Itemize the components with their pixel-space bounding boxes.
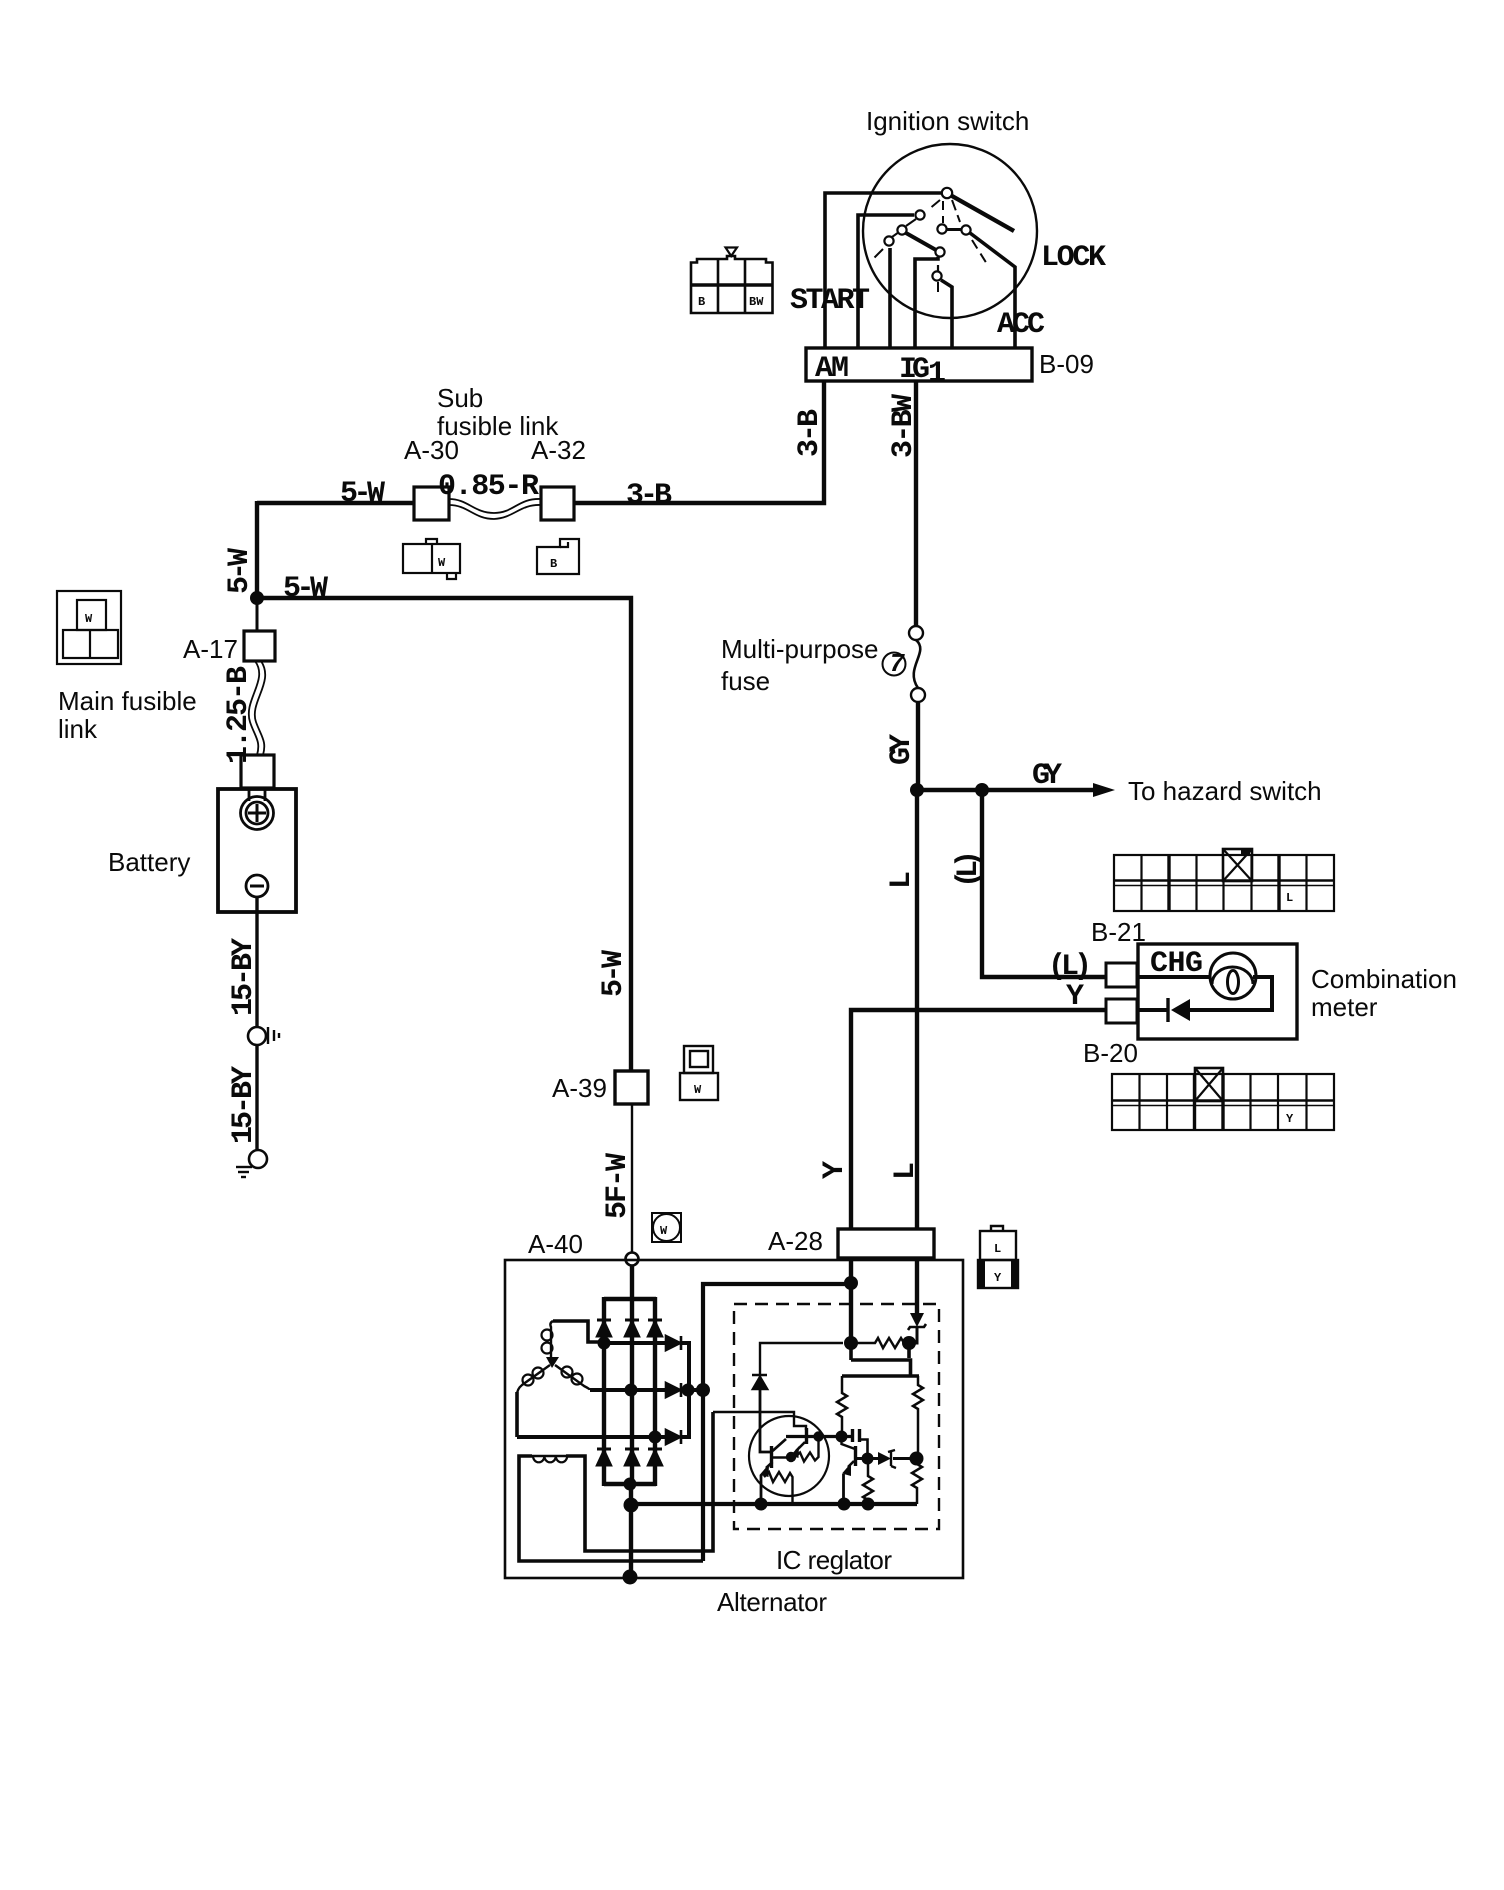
svg-text:1.25-B: 1.25-B [222, 666, 256, 764]
node GY junction 2 [975, 783, 989, 797]
wire switch to B-09 pin2 [858, 215, 914, 348]
node row3 right column [649, 1431, 662, 1444]
wire AM to switch pivot [825, 193, 941, 348]
wire 15-BY upper [255, 897, 258, 1027]
fusible link wavy A-30 to A-32 [449, 499, 541, 513]
svg-text:A-28: A-28 [768, 1226, 823, 1256]
fuse box grid upper [1114, 855, 1334, 911]
transistor T3 [854, 1446, 857, 1466]
stator coil 1 [550, 1321, 553, 1358]
node row2 center column [625, 1384, 638, 1397]
regulator ground rail [631, 1502, 917, 1506]
IC regulator dashed box [734, 1304, 939, 1529]
svg-text:Main fusible: Main fusible [58, 686, 197, 716]
diode bridge lower diodes [597, 1449, 662, 1465]
svg-text:AM: AM [815, 352, 849, 386]
node rail T1 [755, 1498, 768, 1511]
svg-text:15-BY: 15-BY [227, 938, 261, 1016]
svg-text:L: L [994, 1242, 1001, 1256]
field coil left lead [519, 1456, 703, 1561]
wire switch to B-09 pin5 [941, 280, 952, 348]
switch position dashes [871, 200, 987, 292]
node GY junction 1 [910, 783, 924, 797]
switch contact link thin [906, 219, 916, 226]
wire bridge output row 3 [517, 1388, 689, 1437]
capacitor C1 [851, 1429, 854, 1442]
connector icon B/BW (near START) [691, 248, 773, 314]
svg-text:fuse: fuse [721, 666, 770, 696]
ground G1 (mid body ground) [248, 1027, 266, 1045]
svg-text:START: START [790, 284, 870, 318]
fuse cell X upper [1223, 849, 1252, 881]
stator neutral node [546, 1357, 559, 1368]
wire T1 emitter to rail [760, 1475, 763, 1504]
resistor R1 [851, 1338, 910, 1348]
diode row2 output [666, 1383, 681, 1397]
svg-text:L: L [889, 1162, 923, 1180]
transistor T1 [770, 1446, 773, 1468]
connector A-30 [414, 487, 449, 520]
resistor R4 [837, 1376, 847, 1435]
wire bridge output row 1 [604, 1343, 689, 1390]
node C1 bottom [862, 1453, 874, 1465]
stator coil 3 [555, 1365, 590, 1390]
resistor R6 [764, 1472, 793, 1504]
connector icon W square-circle (left of A-28) [652, 1213, 681, 1242]
svg-text:ACC: ACC [997, 308, 1045, 342]
switch contact bridge [906, 233, 936, 250]
wire GY to hazard switch with arrow [917, 788, 1098, 792]
svg-text:meter: meter [1311, 992, 1378, 1022]
field coil L1 [531, 1455, 567, 1457]
node row1 left column [598, 1337, 611, 1350]
svg-text:A-32: A-32 [531, 435, 586, 465]
wire diode to B-20 [1137, 1008, 1168, 1012]
wire bridge output row 2 [590, 1388, 703, 1392]
transistor pair circle [749, 1416, 829, 1496]
connector A-39 [615, 1071, 648, 1104]
wire B+ to ground rail [629, 1484, 633, 1577]
svg-text:3-B: 3-B [793, 409, 827, 457]
wire D2 to T1 base [760, 1388, 771, 1452]
svg-text:GY: GY [1032, 759, 1062, 793]
node rail R8 [862, 1498, 875, 1511]
diode D2 [752, 1375, 767, 1389]
svg-text:5-W: 5-W [283, 572, 328, 606]
wire T2 collector bus [786, 1435, 852, 1438]
diode bridge upper diodes [597, 1320, 662, 1336]
svg-text:W: W [438, 556, 446, 570]
connector icon W (below A-30) [403, 539, 460, 579]
wire D3 to L node [893, 1457, 917, 1460]
wire A-28 Y pin into regulator [849, 1258, 853, 1343]
connector icon W double-square (right of A-39) [680, 1046, 718, 1100]
wire A-28 L pin to zener [915, 1258, 919, 1313]
node row2 output bus [682, 1384, 695, 1397]
lamp CHG indicator [1210, 953, 1256, 999]
svg-text:Y: Y [1286, 1112, 1294, 1126]
wire IG1 from switch [915, 257, 938, 348]
connector B-09 [806, 348, 1032, 381]
wire L main vertical [915, 790, 919, 1229]
svg-text:Battery: Battery [108, 847, 190, 877]
alternator box [505, 1260, 963, 1578]
stator phase B lead [515, 1392, 519, 1437]
node alternator case ground [623, 1570, 638, 1585]
svg-text:Multi-purpose: Multi-purpose [721, 634, 879, 664]
wire regulator sense line [713, 1412, 806, 1430]
connector A-40 (circle on alternator box) [626, 1253, 639, 1266]
wire 5-W horizontal to A-39 branch [255, 598, 631, 1071]
combination meter box [1138, 944, 1297, 1039]
resistor R2 [913, 1376, 923, 1459]
wire 5F-W (A-39 to A-40) [631, 1104, 633, 1252]
svg-text:W: W [660, 1224, 668, 1238]
wire T1 base link [772, 1456, 792, 1458]
resistor R8 [863, 1460, 873, 1504]
svg-text:5F-W: 5F-W [601, 1153, 635, 1219]
wire 15-BY lower [255, 1045, 258, 1151]
wire lamp to diode [1190, 977, 1272, 1010]
label fuse number 7 [883, 653, 906, 676]
svg-text:Y: Y [818, 1161, 852, 1179]
transistor T2 [805, 1428, 808, 1444]
wire ACC from switch [970, 233, 1015, 348]
switch contact link thin 2 [892, 232, 899, 237]
svg-text:A-30: A-30 [404, 435, 459, 465]
connector icon B (below A-32) [537, 539, 579, 574]
svg-text:L: L [885, 871, 919, 889]
wire switch to B-09 pin3 [888, 248, 892, 348]
node rail T3 [838, 1498, 851, 1511]
svg-text:Combination: Combination [1311, 964, 1457, 994]
wire divider link [842, 1343, 919, 1376]
node regulator input [844, 1276, 858, 1290]
battery terminal box [241, 755, 274, 788]
switch contact link ACC-IG [946, 228, 962, 231]
switch terminals [884, 188, 970, 281]
fusible link wavy A-17 to battery terminal [249, 661, 259, 755]
svg-text:IC reglator: IC reglator [776, 1545, 892, 1575]
fuse F7 multi-purpose [909, 626, 923, 640]
wire diode branch [760, 1343, 843, 1374]
svg-text:To hazard switch: To hazard switch [1128, 776, 1322, 806]
svg-text:B: B [698, 295, 705, 309]
wire T3 collector [856, 1457, 879, 1460]
wire B+ output (A-40 into bridge) [630, 1266, 634, 1488]
stator phase A lead [553, 1321, 604, 1342]
zener diode ZD1 [910, 1313, 924, 1327]
stator coil 2 [517, 1365, 550, 1395]
wire Y from B-20 to A-28 [851, 1010, 1106, 1229]
connector B-20 [1106, 999, 1137, 1023]
diode D3 [878, 1452, 891, 1465]
wire bridge to regulator feed [703, 1284, 851, 1561]
wire 5-W vertical [255, 501, 259, 600]
connector icon Main fusible link [57, 591, 121, 664]
bridge right column [653, 1297, 657, 1486]
node R1 right [902, 1336, 916, 1350]
connector A-28 [838, 1229, 934, 1258]
wire 3-B from A-32 to B-09 [574, 381, 824, 503]
svg-text:W: W [85, 612, 93, 626]
svg-text:B: B [550, 557, 557, 571]
node row2 to sense line [696, 1383, 710, 1397]
node B+ bottom bus [624, 1478, 637, 1491]
ground G2 (battery ground) [249, 1150, 267, 1168]
svg-text:A-40: A-40 [528, 1229, 583, 1259]
svg-text:Y: Y [994, 1271, 1002, 1285]
field coil right lead [566, 1412, 713, 1551]
battery plus terminal [241, 797, 274, 830]
resistor R5 [795, 1437, 819, 1462]
node E rail junction [624, 1498, 639, 1513]
fuse box grid lower [1112, 1074, 1334, 1130]
node L lamp drive [910, 1452, 924, 1466]
svg-text:5-W: 5-W [597, 950, 631, 997]
svg-text:A-39: A-39 [552, 1073, 607, 1103]
wire 5-W horizontal top (to A-30) [257, 501, 414, 505]
wire junction to A-17 [256, 598, 259, 631]
fuse cell X lower [1195, 1068, 1223, 1101]
svg-text:5-W: 5-W [340, 477, 385, 511]
wire (L) branch to B-21 [982, 790, 1106, 977]
switch stub above ACC contact [937, 265, 939, 271]
diode row1 output [666, 1336, 681, 1350]
diode D1 (meter) [1171, 999, 1190, 1021]
bridge left column [602, 1297, 606, 1486]
switch lever LOCK position [952, 196, 1014, 231]
svg-text:Alternator: Alternator [717, 1587, 827, 1617]
svg-text:3-B: 3-B [626, 479, 672, 513]
ignition switch S1 body [863, 144, 1037, 318]
connector B-21 [1106, 963, 1137, 987]
svg-text:Sub: Sub [437, 383, 483, 413]
svg-text:W: W [694, 1083, 702, 1097]
connector A-32 [541, 487, 574, 520]
svg-text:A-17: A-17 [183, 634, 238, 664]
connector A-17 [244, 631, 275, 661]
svg-text:1: 1 [928, 357, 946, 391]
svg-text:L: L [1286, 891, 1293, 905]
diode row3 output [666, 1430, 681, 1444]
node F drive [836, 1431, 848, 1443]
bridge top bus [604, 1297, 656, 1301]
wire T3 emitter to rail [842, 1474, 845, 1504]
bridge bottom bus [604, 1482, 656, 1486]
node T2 emitter / T1 base [786, 1452, 796, 1462]
svg-text:7: 7 [889, 649, 905, 679]
node R1 left [844, 1336, 858, 1350]
resistor R7 [912, 1459, 922, 1504]
svg-text:0.85-R: 0.85-R [438, 470, 539, 504]
svg-text:LOCK: LOCK [1041, 241, 1106, 275]
svg-text:link: link [58, 714, 98, 744]
battery B1 [218, 789, 296, 912]
wire GY vertical [916, 702, 920, 790]
svg-text:15-BY: 15-BY [227, 1066, 261, 1144]
svg-text:B-20: B-20 [1083, 1038, 1138, 1068]
wire lamp feed [1137, 975, 1211, 979]
node R5 top [813, 1431, 823, 1441]
svg-text:Ignition switch: Ignition switch [866, 106, 1029, 136]
svg-text:GY: GY [885, 734, 919, 765]
svg-text:( L ): ( L ) [1048, 950, 1092, 984]
node junction 5-W [250, 591, 264, 605]
svg-text:(L): (L) [952, 850, 986, 888]
wire 3-BW [914, 381, 918, 626]
svg-text:BW: BW [749, 295, 764, 309]
svg-text:B-09: B-09 [1039, 349, 1094, 379]
svg-text:5-W: 5-W [223, 548, 257, 594]
connector icon L/Y (right of A-28) [978, 1226, 1018, 1288]
battery minus terminal [246, 875, 268, 897]
